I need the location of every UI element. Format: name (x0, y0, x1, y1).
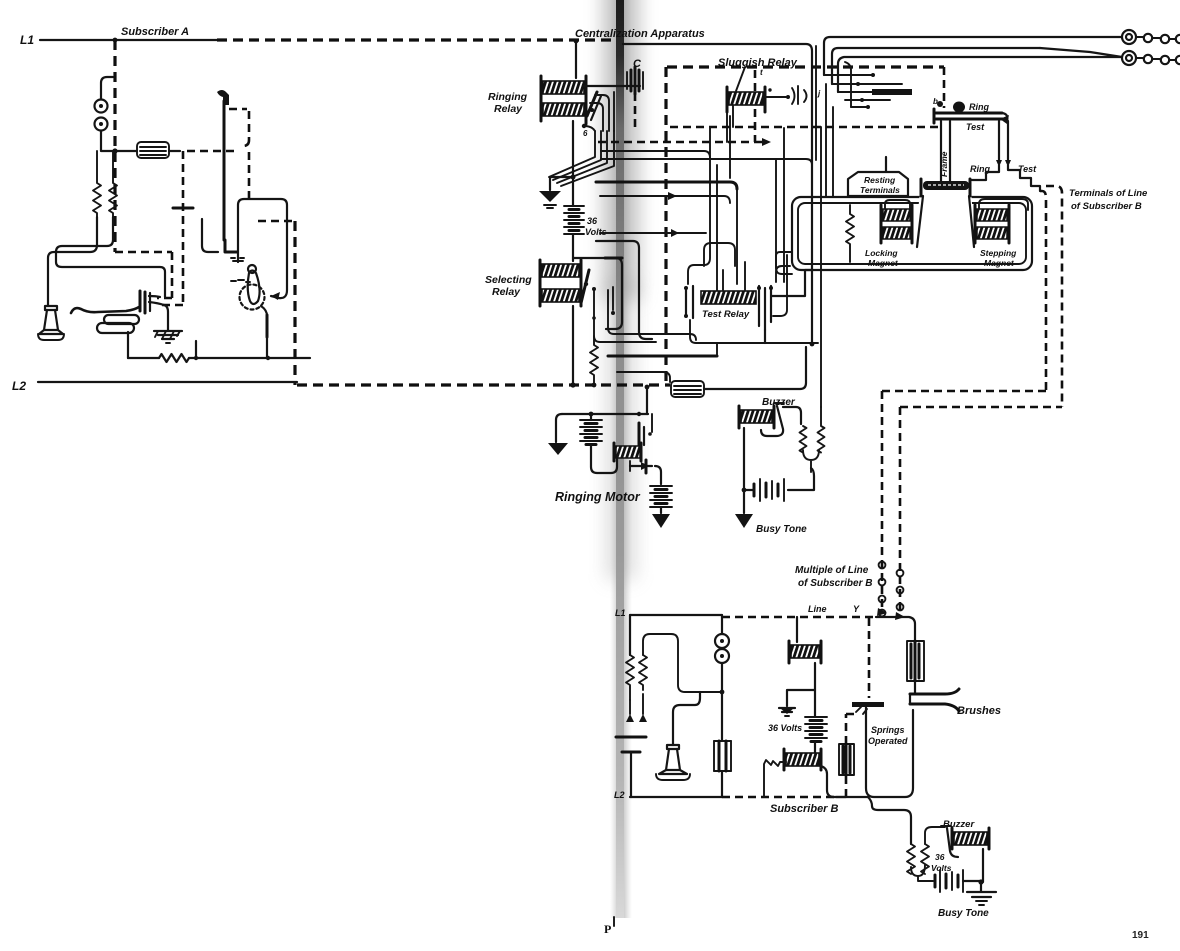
node L1 drop junction (113, 38, 118, 43)
wire dashed dial hook lower (248, 152, 251, 198)
resting terminals stem (885, 157, 887, 171)
wire bar to loop (266, 337, 268, 358)
resistor in line 2 (109, 151, 117, 217)
wire resistor pair bottom (803, 450, 819, 472)
wire contact loop (866, 710, 913, 797)
svg-text:Subscriber B: Subscriber B (770, 803, 839, 815)
wire column x745 (744, 262, 746, 290)
svg-text:t: t (760, 68, 763, 77)
svg-text:Resting: Resting (864, 175, 896, 185)
selecting relay contact hooks (592, 287, 696, 342)
svg-text:Magnet: Magnet (868, 258, 899, 268)
wire thick mid horizontal (608, 355, 717, 358)
contact row 1 (824, 73, 875, 77)
dial pawl (248, 271, 260, 305)
wire column x723 (722, 270, 724, 290)
wire subB bottom solid (630, 796, 722, 798)
wire armature top across (584, 85, 640, 87)
terminal circles row 2 (1122, 51, 1180, 65)
node junction at coil line (112, 148, 117, 153)
jack entry dot (937, 101, 943, 107)
battery of ringing motor (580, 420, 602, 445)
svg-text:Selecting: Selecting (485, 274, 532, 286)
resistor busy lower 2 (921, 827, 945, 874)
wire line Y right end (876, 617, 915, 641)
receiver subB (656, 745, 690, 780)
wire dashed sluggish box right (754, 70, 757, 142)
node busy tone junction (742, 488, 747, 493)
wire arch over locking magnet (885, 200, 910, 209)
wire fan stem left (550, 177, 573, 190)
capacitor C (627, 67, 643, 94)
ringing relay coil lower (543, 103, 584, 116)
label Ringing Relay (488, 91, 528, 115)
wire arch over test relay (704, 243, 735, 266)
wire battery to cutoff coil (814, 742, 816, 753)
wire dashed below capacitor (634, 93, 637, 128)
wire dashed horizontal to shunt (258, 220, 293, 223)
wire L1 drop to ringing relay (575, 40, 577, 78)
dial feed wire vertical (223, 101, 226, 240)
wire column x737 (736, 189, 738, 284)
svg-text:Operated: Operated (868, 736, 908, 746)
ground busy lower (967, 882, 996, 905)
svg-text:L1: L1 (20, 33, 34, 47)
wire resistor pair bottom lower (911, 865, 933, 881)
wire L1 solid left (40, 39, 217, 41)
svg-text:Brushes: Brushes (957, 705, 1001, 717)
wire L2 solid (38, 381, 297, 383)
multiple terminals right (897, 570, 904, 611)
resistor buzzer 1 (800, 426, 807, 453)
wire dashed sluggish box left (664, 67, 667, 387)
stepping magnet coil lower (977, 227, 1007, 239)
wire cross line y233 (600, 229, 706, 237)
contact bar under gutter (605, 257, 622, 260)
wire bottom loop left (128, 357, 159, 359)
resting terminals block (848, 172, 908, 196)
condenser subB (616, 737, 646, 797)
sluggish relay coil (729, 92, 763, 105)
svg-text:Relay: Relay (492, 286, 521, 298)
wire cross line y151 (601, 151, 710, 158)
wire dashed springs drop (868, 618, 871, 698)
node test cross on dashed branch (173, 207, 193, 210)
test relay left springs (684, 286, 693, 318)
svg-text:36: 36 (935, 852, 945, 862)
induction coil of subscriber A (137, 142, 169, 158)
wire battery to selecting relay (572, 234, 574, 261)
wire coil right drop lower (982, 849, 984, 882)
resistor buzzer 2 (818, 407, 825, 453)
wire subB left side (629, 615, 631, 655)
label Selecting Relay (485, 274, 532, 298)
buzzer armature centre (761, 403, 784, 436)
wire motor feed corner to ground (556, 414, 562, 442)
wire bottom loop right (189, 357, 310, 359)
wire L1 solid right of gutter (623, 44, 812, 158)
svg-text:36: 36 (587, 216, 598, 226)
node motor branch (589, 412, 594, 417)
wire cross line y196 (600, 196, 730, 203)
wire battery to motor relay (591, 445, 617, 473)
wire dashed sluggish box top (667, 65, 944, 68)
wire link rows (716, 343, 718, 356)
frame pedestal mask (914, 192, 976, 248)
wire relay to battery (572, 121, 574, 206)
wire line relay drop (796, 617, 798, 642)
svg-text:Terminals: Terminals (860, 185, 900, 195)
label 36 Volts central (585, 216, 607, 237)
wire arch over stepping magnet (979, 199, 1028, 210)
svg-text:L2: L2 (12, 379, 26, 393)
armature corner thick (225, 240, 237, 252)
wire ringer stem subB (721, 615, 723, 741)
ground busy tone centre (735, 514, 753, 528)
svg-text:Busy Tone: Busy Tone (938, 908, 989, 919)
dial contact blob (217, 90, 229, 105)
wire column x710 (688, 127, 710, 284)
contact row 2 (832, 82, 902, 86)
resistor in magnet box (846, 205, 854, 262)
wire ringer top bend (101, 77, 113, 99)
wire sluggish bar drops (727, 106, 733, 142)
wire column x833 (832, 107, 834, 197)
svg-text:Volts: Volts (931, 863, 952, 873)
locking magnet coil lower (883, 227, 910, 239)
ringing relay end bars (541, 76, 586, 121)
ring test jack bar (934, 102, 1009, 125)
ground of ringing relay (539, 191, 561, 208)
svg-text:L2: L2 (614, 790, 625, 800)
receiver of subscriber A (38, 306, 64, 340)
ringer gong lower (95, 118, 108, 131)
wire dashed dial hook upper (229, 109, 249, 146)
wire dashed jack horizontal (670, 126, 941, 129)
multiple terminals left (879, 562, 886, 617)
wire cutoff right drop (821, 766, 846, 797)
wire column x784 (783, 128, 785, 282)
wire to busy tone lower (868, 797, 911, 844)
wire dashed shunt vertical (293, 221, 296, 385)
wire column x812 (811, 158, 813, 344)
wire resistor1 down to case (48, 217, 97, 306)
svg-text:Volts: Volts (585, 227, 607, 237)
book gutter shadow band (603, 0, 639, 918)
resistor bottom horizontal (159, 354, 189, 362)
line group to terminals row A (824, 37, 1122, 75)
wire test relay armature drop (764, 330, 766, 343)
contact row 3 (838, 90, 882, 94)
wire dashed jack drop (943, 67, 946, 108)
hook contact stack (140, 291, 164, 313)
frame side rails (941, 121, 950, 182)
wire L2 to right (704, 347, 806, 389)
brushes (910, 689, 959, 711)
svg-text:Ring: Ring (969, 102, 989, 112)
svg-text:Y: Y (853, 604, 860, 614)
line group to terminals row C (838, 48, 1122, 92)
line group to terminals row B (832, 48, 1040, 84)
ground subB (779, 708, 795, 716)
battery busy tone centre (754, 479, 784, 501)
wire receiver stem (673, 692, 700, 745)
wire transmitter to bottom loop (127, 332, 129, 358)
arrow on dashed row (762, 138, 771, 146)
wire column x730 (729, 116, 731, 178)
vertical from L2 to motor feed (646, 388, 648, 414)
buzzer coil lower (954, 832, 987, 845)
wire right spring arch (776, 266, 790, 282)
svg-text:Busy Tone: Busy Tone (756, 524, 807, 535)
ringing motor coil (616, 446, 640, 458)
svg-text:Stepping: Stepping (980, 248, 1017, 258)
battery busy lower (935, 870, 963, 892)
svg-text:191: 191 (1132, 930, 1149, 941)
svg-text:Magnet: Magnet (984, 258, 1015, 268)
svg-text:P: P (604, 922, 611, 936)
svg-text:Springs: Springs (871, 725, 905, 735)
wire motor to battery2 (655, 466, 661, 484)
transmitter (97, 315, 139, 333)
svg-text:Ringing Motor: Ringing Motor (555, 490, 641, 504)
wire gear to bar (261, 306, 267, 316)
sluggish relay contacts (765, 86, 807, 104)
wire selecting relay down (572, 306, 574, 385)
frame pedestal (917, 196, 974, 247)
svg-text:Frame: Frame (939, 151, 949, 177)
svg-text:Test: Test (966, 122, 985, 132)
node mid bus (810, 342, 815, 347)
magnet box inner (798, 203, 1026, 264)
wire box bottom feed (776, 252, 792, 268)
svg-text:Test Relay: Test Relay (702, 309, 750, 320)
wiper step contacts (972, 121, 1040, 191)
wire dashed dial branch (159, 151, 183, 305)
wire dashed into hook contact (115, 252, 172, 298)
dial pivot (248, 265, 256, 273)
bundle vertical feeds (816, 46, 851, 197)
frame shaft cap (921, 179, 970, 196)
wire buzzer left drop (743, 428, 745, 513)
node loop junctions (194, 356, 270, 360)
buzzer end bars lower (952, 828, 989, 849)
sluggish relay end bars (727, 87, 765, 112)
wire ringer to coil node (101, 131, 137, 151)
wire under test relay (690, 320, 818, 343)
wire contact down to ground (164, 305, 168, 330)
buzzer armature lower (941, 826, 958, 857)
svg-text:L1: L1 (615, 608, 626, 618)
ground of subscriber A (154, 331, 182, 343)
wire dashed drop of subscriber A (113, 40, 116, 252)
node fan junction (571, 175, 576, 180)
wire fuse bottom dashed (845, 776, 848, 796)
test relay coil (701, 291, 756, 304)
locking magnet coil upper (883, 209, 910, 221)
wire dashed multiple drop left (881, 391, 884, 612)
wire dashed terminal lead 1 (882, 191, 1046, 391)
buzzer end bars centre (739, 406, 774, 428)
wire cross line y159 (601, 159, 812, 165)
svg-text:6: 6 (583, 129, 588, 138)
svg-text:Subscriber A: Subscriber A (121, 26, 189, 38)
resistor below selecting relay (590, 336, 598, 385)
svg-text:of Subscriber B: of Subscriber B (798, 578, 872, 589)
selecting relay armature (581, 270, 589, 303)
svg-text:Relay: Relay (494, 103, 523, 115)
wire buzzer contact to resistors (783, 407, 801, 424)
battery subB (805, 717, 827, 742)
ringer gong upper (95, 100, 108, 113)
wire dashed fuse top (846, 714, 858, 744)
battery below motor (650, 486, 672, 507)
ringing motor interrupter bars (637, 412, 652, 445)
contact marks near dial (231, 258, 250, 282)
condenser box subB (714, 741, 731, 797)
cutoff coil subB (786, 753, 819, 766)
node L2 junctions (570, 382, 649, 389)
arrowhead on dial case (271, 292, 280, 300)
ringing motor coil end bars (614, 443, 641, 461)
wire dashed terminal lead 2 (900, 186, 1062, 407)
hook contact arrows subB (626, 694, 647, 722)
contact row 4 (845, 98, 890, 102)
battery 36 volts central (564, 206, 584, 234)
fuse right subB (907, 641, 924, 681)
wire to line coil left (617, 372, 670, 382)
resistor in line 1 (93, 151, 101, 217)
wire subB bottom solid feed (836, 796, 868, 798)
wire ground branch subB (787, 690, 815, 706)
induction coil at L2 (671, 381, 704, 397)
cutoff end bars subB (784, 749, 821, 770)
dial gear (240, 285, 265, 310)
node subB junction (720, 690, 725, 695)
wire to battery right (788, 468, 814, 490)
wire battery to ground lower (963, 880, 981, 882)
ringing relay armature (582, 84, 601, 128)
svg-text:Centralization Apparatus: Centralization Apparatus (575, 28, 705, 40)
contact row 5 (851, 105, 870, 109)
wire dashed multiple drop right (899, 407, 902, 616)
stepping magnet end bars (975, 205, 1009, 243)
wire relay to battery subB (814, 663, 816, 716)
line relay coil subB (791, 645, 819, 658)
wire motor aux vertical (651, 414, 653, 432)
svg-text:of Subscriber B: of Subscriber B (1071, 201, 1142, 212)
selecting relay coil upper (542, 264, 579, 277)
hook lever (71, 307, 139, 313)
svg-text:Multiple of Line: Multiple of Line (795, 565, 869, 576)
pawl stop bar (266, 315, 269, 337)
ground below motor battery (652, 507, 670, 528)
resistor subB left (626, 655, 634, 700)
ringing relay contact fan (549, 131, 614, 186)
svg-text:Line: Line (808, 604, 827, 614)
line relay end bars subB (789, 641, 821, 663)
buzzer coil centre (741, 410, 772, 423)
magnet box outer (792, 197, 1032, 270)
wire dash-dot from coil to dial (169, 150, 180, 152)
ground of ringing motor branch (548, 443, 568, 455)
wire subB bottom dashed (722, 796, 836, 799)
stepping magnet coil upper (977, 209, 1007, 221)
wire column x717 (716, 165, 718, 290)
wire resistor2 down inner (56, 217, 165, 297)
svg-text:Terminals of Line: Terminals of Line (1069, 188, 1148, 199)
resistor busy lower 1 (907, 844, 915, 874)
wire hook right of test relay (773, 255, 787, 316)
locking magnet end bars (881, 205, 912, 243)
wire battery to buzzer left (744, 489, 754, 491)
selecting relay end bars (540, 260, 581, 306)
wire L1 dashed to centre (217, 38, 617, 41)
selecting relay coil lower (542, 289, 579, 302)
wire cross line y182 thick (596, 182, 737, 189)
svg-text:Locking: Locking (865, 248, 898, 258)
resistor stub subB (764, 760, 786, 797)
svg-text:36 Volts: 36 Volts (768, 723, 802, 733)
wire line Y solid left (630, 614, 722, 616)
ringer subB upper (715, 634, 729, 648)
contact bar black (872, 89, 912, 95)
test relay right springs (757, 286, 773, 330)
terminal circles row 1 (1122, 30, 1180, 44)
wire motor contacts right (630, 460, 652, 473)
wire column x821 (820, 127, 822, 407)
wire line Y dashed (722, 616, 876, 619)
wire fuse to brushes (914, 681, 916, 694)
wire dashed relay row (598, 141, 762, 144)
ringing relay contact hooks (584, 92, 614, 131)
dial case rounded (238, 199, 287, 298)
ringing relay coil upper (543, 81, 584, 94)
sluggish relay label leader (736, 67, 745, 91)
wire ringing motor feed (562, 413, 648, 415)
wire column x776 (776, 159, 792, 274)
wire L2 dashed to centre (297, 383, 670, 386)
node busy lower (978, 879, 983, 884)
wire riser pair right (573, 258, 622, 329)
inner case wire (202, 219, 218, 252)
wire riser pair left (596, 241, 652, 339)
springs operated contact (852, 702, 884, 714)
page mark P (604, 917, 614, 936)
wire test relay right riser (772, 270, 812, 296)
ringer subB lower (715, 649, 729, 663)
fuse left subB (839, 744, 854, 775)
wire battery top stub (590, 414, 592, 420)
svg-text:Ringing: Ringing (488, 91, 528, 103)
resistor subB second (639, 634, 722, 692)
wire ground stem stub (195, 341, 197, 358)
